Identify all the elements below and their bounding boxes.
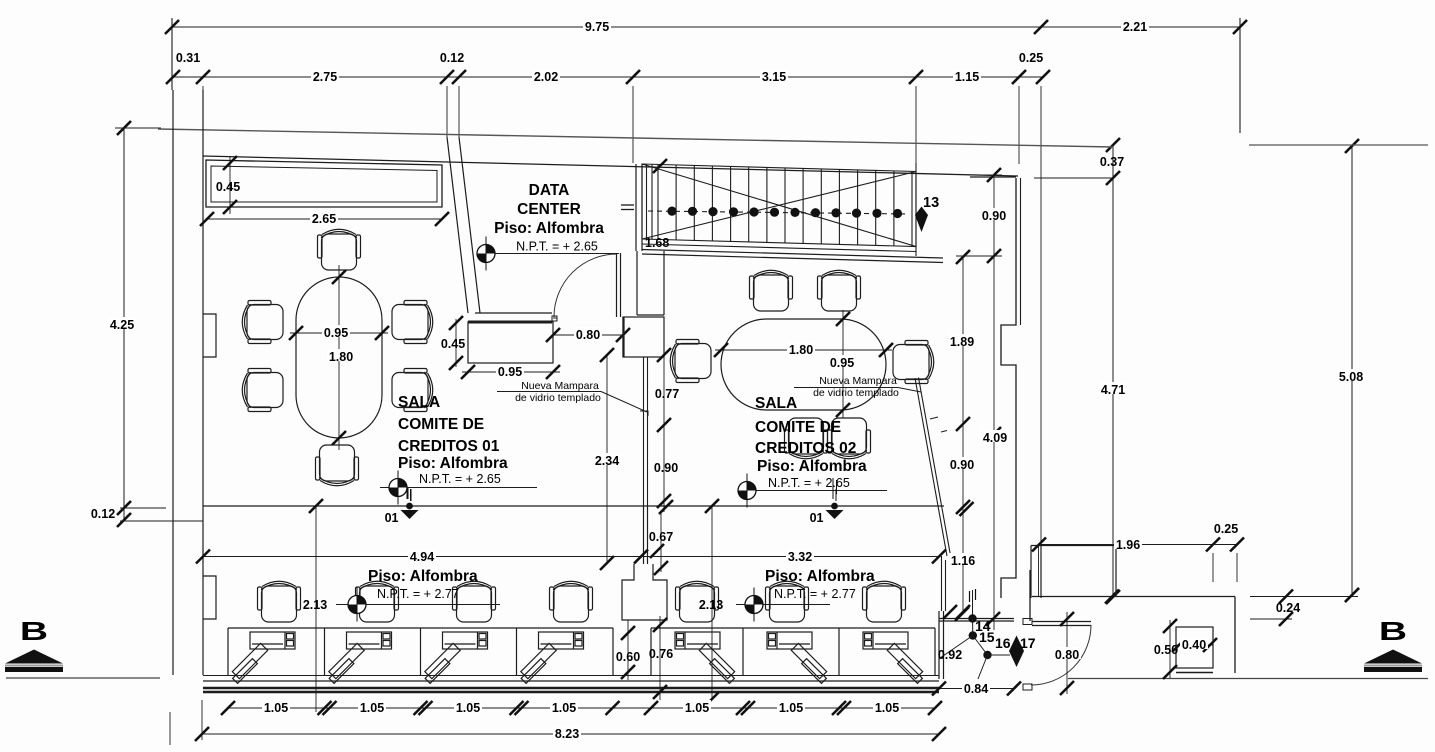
svg-text:0.60: 0.60 [616, 650, 640, 664]
door lobby (leaf + swing arc) [1032, 621, 1091, 623]
workstation desk 6 [767, 632, 827, 683]
svg-text:2.13: 2.13 [699, 598, 723, 612]
svg-text:4.09: 4.09 [983, 431, 1007, 445]
svg-text:2.65: 2.65 [312, 212, 336, 226]
text DATA CENTER [494, 182, 604, 237]
svg-text:Nueva Mampara: Nueva Mampara [819, 375, 897, 387]
dimension 0.80 door [552, 334, 624, 336]
office chair 2 bottom row [356, 581, 399, 622]
extension line x=316 [315, 506, 317, 712]
svg-text:0.80: 0.80 [1055, 648, 1079, 662]
dimension 4.71 right [1099, 382, 1127, 394]
svg-text:2.02: 2.02 [534, 70, 558, 84]
wall: bottom exterior band [203, 675, 939, 677]
svg-text:0.12: 0.12 [91, 507, 115, 521]
svg-text:1.05: 1.05 [264, 701, 288, 715]
svg-text:2.13: 2.13 [303, 598, 327, 612]
svg-text:N.P.T. = + 2.65: N.P.T. = + 2.65 [516, 240, 598, 254]
mampara glass partition central [643, 357, 645, 507]
svg-text:SALA: SALA [755, 395, 797, 412]
wall: left interior [202, 90, 204, 675]
dimension 0.90 right lower [962, 424, 964, 507]
chair room02 right [893, 341, 934, 384]
svg-text:COMITE DE: COMITE DE [755, 419, 841, 436]
svg-text:0.95: 0.95 [498, 365, 522, 379]
dimension 8.23 [202, 733, 939, 735]
stairs cross diagonals [642, 164, 916, 247]
dimension 0.84 [936, 688, 1014, 690]
svg-text:CENTER: CENTER [517, 201, 581, 218]
dimension 4.09 [993, 255, 995, 630]
dimension 0.40 [1176, 644, 1213, 646]
wall: exterior top slanted [158, 129, 1113, 147]
workstation desk 7 [863, 632, 923, 683]
svg-text:8.23: 8.23 [555, 727, 579, 741]
svg-text:0.92: 0.92 [938, 648, 962, 662]
wall: central below rooms [643, 507, 645, 564]
chair room01 left lower [242, 369, 283, 412]
office chair 4 bottom row [550, 581, 593, 622]
svg-text:de vidrio templado: de vidrio templado [515, 392, 601, 404]
svg-text:4.94: 4.94 [410, 550, 434, 564]
wall: stairs left side [635, 164, 637, 251]
dimension 0.67 [660, 512, 662, 572]
surveyor symbol room01 [380, 487, 537, 489]
svg-text:0.24: 0.24 [1276, 601, 1300, 615]
conference table room01 (oval) [296, 277, 382, 438]
svg-text:0.40: 0.40 [1182, 638, 1206, 652]
svg-text:0.31: 0.31 [176, 51, 200, 65]
svg-text:1.05: 1.05 [552, 701, 576, 715]
svg-text:Piso: Alfombra: Piso: Alfombra [494, 220, 604, 237]
svg-text:COMITE DE: COMITE DE [398, 416, 484, 433]
data center counter 0.95x0.45 [468, 322, 553, 363]
note nueva mampara room02 [813, 375, 899, 399]
dimension 4.25 left [123, 128, 125, 521]
dimension 1.80 table01 [327, 349, 355, 361]
chair room02 top right [818, 270, 861, 311]
dimension 0.50 [1169, 620, 1171, 678]
svg-text:Piso: Alfombra: Piso: Alfombra [368, 568, 478, 585]
svg-text:0.90: 0.90 [950, 458, 974, 472]
svg-text:1.15: 1.15 [955, 70, 979, 84]
svg-text:17: 17 [1020, 635, 1036, 651]
surveyor symbol room02 [747, 490, 887, 492]
wall: left exterior [172, 90, 174, 675]
svg-text:0.77: 0.77 [655, 387, 679, 401]
svg-text:1.05: 1.05 [456, 701, 480, 715]
ground line bottom right [1068, 678, 1428, 680]
dimension row 0.31 / 2.75 / 0.12 / 2.02 / 3.15 / 1.15 / 0.25 [173, 76, 1043, 78]
dimension 2.13 left + surveyor [336, 604, 500, 606]
dimension 0.45 counter [455, 319, 457, 367]
extension line x=712 [711, 506, 713, 700]
dimension 0.76 [659, 616, 661, 700]
wall: partition room01 / data center (slanted) [447, 137, 468, 313]
data center counter top wall [475, 312, 552, 314]
svg-text:2.21: 2.21 [1123, 20, 1147, 34]
wall: short top right of stairs [970, 176, 1016, 178]
svg-text:13: 13 [923, 195, 939, 211]
svg-text:N.P.T. = + 2.65: N.P.T. = + 2.65 [419, 472, 501, 486]
stairs top edge tick [653, 159, 667, 173]
svg-text:1.89: 1.89 [950, 335, 974, 349]
dimension 5.08 far right [1351, 146, 1353, 595]
office chair 1 bottom row [258, 581, 301, 622]
column center bottom (stepped) [622, 564, 667, 620]
extension lines from top dims [202, 86, 204, 156]
note nueva mampara room01 [515, 380, 601, 404]
dimension 0.25 lower right [1213, 544, 1237, 546]
svg-text:16: 16 [995, 635, 1011, 651]
dimension 0.77 [663, 349, 665, 430]
workstation desk 1 [232, 632, 295, 683]
wall: lobby right vertical + door jambs [1029, 570, 1031, 621]
wall: lobby top horizontal [939, 618, 1014, 620]
walk path nodes 14-17 [972, 590, 974, 618]
door data center (leaf + swing arc) [616, 253, 618, 317]
svg-text:B: B [20, 617, 48, 646]
reception cabinet 0.40x0.50 [1176, 627, 1213, 668]
svg-text:0.25: 0.25 [1019, 51, 1043, 65]
svg-text:01: 01 [385, 511, 399, 525]
svg-text:1.05: 1.05 [779, 701, 803, 715]
stairs walk start mark [621, 204, 634, 206]
svg-text:CREDITOS 02: CREDITOS 02 [755, 440, 856, 457]
stairs flight [642, 163, 916, 256]
svg-text:2.34: 2.34 [595, 454, 619, 468]
wall: room02 top (below stairs) [642, 250, 943, 259]
dimension 0.95 counter [462, 371, 560, 373]
level marker 01 room02 [832, 487, 834, 499]
surveyor symbol data center [486, 253, 619, 255]
svg-text:N.P.T. = + 2.65: N.P.T. = + 2.65 [768, 476, 850, 490]
dimension 0.37 right [1112, 145, 1114, 597]
dimension 1.16 [962, 507, 964, 612]
chair room02 bottom right [828, 418, 871, 459]
workstation desk 4 [521, 632, 584, 683]
dimension 4.94 [203, 556, 641, 558]
dimension 2.21 top [1121, 19, 1149, 31]
dimension 3.32 [641, 556, 939, 558]
svg-text:de vidrio templado: de vidrio templado [813, 387, 899, 399]
svg-text:0.80: 0.80 [576, 328, 600, 342]
chair room01 left upper [242, 301, 283, 344]
svg-text:01: 01 [810, 511, 824, 525]
dimension 0.45 cabinet [229, 157, 231, 214]
mampara glass partition room02 (slanted) [915, 378, 947, 556]
svg-text:1.05: 1.05 [685, 701, 709, 715]
svg-text:Piso: Alfombra: Piso: Alfombra [757, 458, 867, 475]
wall: below mampara to lobby [941, 556, 943, 611]
text SALA COMITE DE CREDITOS 02 [755, 395, 867, 475]
column between door and room 02 [623, 317, 664, 357]
desk cubicles left group [228, 628, 613, 675]
svg-text:0.84: 0.84 [964, 682, 988, 696]
svg-text:0.12: 0.12 [440, 51, 464, 65]
svg-text:DATA: DATA [529, 182, 570, 199]
wall pilaster left upper [203, 314, 216, 357]
wall: lower-right room walls [1032, 596, 1235, 598]
workstation desk 3 [425, 632, 488, 683]
dimension 2.65 cabinet [207, 218, 442, 220]
dimension 9.75 top [172, 26, 1240, 28]
svg-text:Piso: Alfombra: Piso: Alfombra [398, 455, 508, 472]
dimension 0.95 table02 [842, 310, 844, 418]
dimension 1.89 [962, 257, 964, 424]
svg-text:1.80: 1.80 [789, 343, 813, 357]
svg-text:Nueva Mampara: Nueva Mampara [521, 380, 599, 392]
svg-text:5.08: 5.08 [1339, 370, 1363, 384]
office chair 7 bottom row [863, 581, 906, 622]
svg-text:0.37: 0.37 [1100, 155, 1124, 169]
wall pilaster left lower [203, 576, 216, 619]
svg-text:B: B [1379, 617, 1407, 646]
workstation desk 5 [675, 632, 735, 683]
workstation desk 2 [329, 632, 392, 683]
conference table room02 (oval) [721, 319, 886, 410]
chair room01 top [318, 229, 361, 270]
stairs walk line with dots [648, 211, 908, 214]
chair room01 right upper [392, 301, 433, 344]
dimension 0.95 table01 [290, 332, 388, 334]
svg-text:0.90: 0.90 [654, 461, 678, 475]
svg-text:4.71: 4.71 [1101, 383, 1125, 397]
svg-text:0.90: 0.90 [982, 209, 1006, 223]
dimension 2.13 right + surveyor [736, 604, 830, 606]
svg-text:15: 15 [979, 629, 995, 645]
svg-text:0.45: 0.45 [441, 337, 465, 351]
svg-text:1.05: 1.05 [360, 701, 384, 715]
stairs lower landing line [642, 244, 916, 252]
svg-text:N.P.T. = + 2.77: N.P.T. = + 2.77 [377, 587, 459, 601]
svg-text:1.68: 1.68 [645, 236, 669, 250]
chair room02 top left [750, 270, 793, 311]
wall: lobby left vertical [938, 611, 940, 679]
dimension 0.90 right upper [993, 175, 995, 256]
svg-text:1.80: 1.80 [329, 350, 353, 364]
chair room01 right lower [392, 369, 433, 412]
dimension 1.96 [1039, 544, 1213, 546]
dimension 0.80 lobby door [1066, 612, 1068, 694]
dimension 2.34 [606, 355, 608, 563]
dimension row 1.05 x7 [228, 707, 935, 709]
office chair 3 bottom row [453, 581, 496, 622]
svg-text:CREDITOS 01: CREDITOS 01 [398, 438, 500, 455]
office chair 6 bottom row [766, 581, 809, 622]
dimension 0.60 [627, 620, 629, 680]
svg-text:N.P.T. = + 2.77: N.P.T. = + 2.77 [774, 587, 856, 601]
svg-text:1.96: 1.96 [1116, 538, 1140, 552]
wall: corridor segment between data center and room02 [636, 251, 638, 315]
svg-text:SALA: SALA [398, 394, 440, 411]
level marker 01 room01 [407, 487, 409, 499]
svg-text:0.25: 0.25 [1214, 522, 1238, 536]
text SALA COMITE DE CREDITOS 01 [398, 394, 508, 472]
svg-text:2.75: 2.75 [313, 70, 337, 84]
dimension 1.80 table02 [715, 349, 892, 351]
chair room02 left [670, 340, 711, 383]
svg-text:0.95: 0.95 [324, 326, 348, 340]
wall: right side of rooms (stepped) [1001, 178, 1016, 598]
svg-text:3.32: 3.32 [788, 550, 812, 564]
room top right small [1031, 545, 1116, 547]
chair room01 bottom [316, 445, 359, 486]
chair room02 bottom left [785, 418, 828, 459]
arrow 17 right [1009, 636, 1024, 668]
svg-text:Piso: Alfombra: Piso: Alfombra [765, 568, 875, 585]
svg-text:0.45: 0.45 [216, 180, 240, 194]
svg-text:0.95: 0.95 [830, 356, 854, 370]
desk cubicles right group [651, 628, 935, 675]
svg-text:9.75: 9.75 [585, 20, 609, 34]
dimension 0.24 [1250, 596, 1358, 598]
office chair 5 bottom row [676, 581, 719, 622]
wall: interior top slanted [203, 156, 1018, 176]
top right boundary line [1249, 144, 1428, 146]
svg-text:3.15: 3.15 [762, 70, 786, 84]
dimension 0.90 center [663, 430, 665, 512]
credenza cabinet room01 [206, 160, 442, 207]
svg-text:0.67: 0.67 [649, 530, 673, 544]
svg-text:1.16: 1.16 [951, 554, 975, 568]
wall: bottom of rooms 01/02 [203, 505, 944, 507]
svg-text:0.76: 0.76 [649, 647, 673, 661]
ground line bottom left [6, 677, 160, 679]
stairs direction arrow 13 [915, 207, 928, 233]
svg-text:4.25: 4.25 [110, 318, 134, 332]
svg-text:1.05: 1.05 [875, 701, 899, 715]
